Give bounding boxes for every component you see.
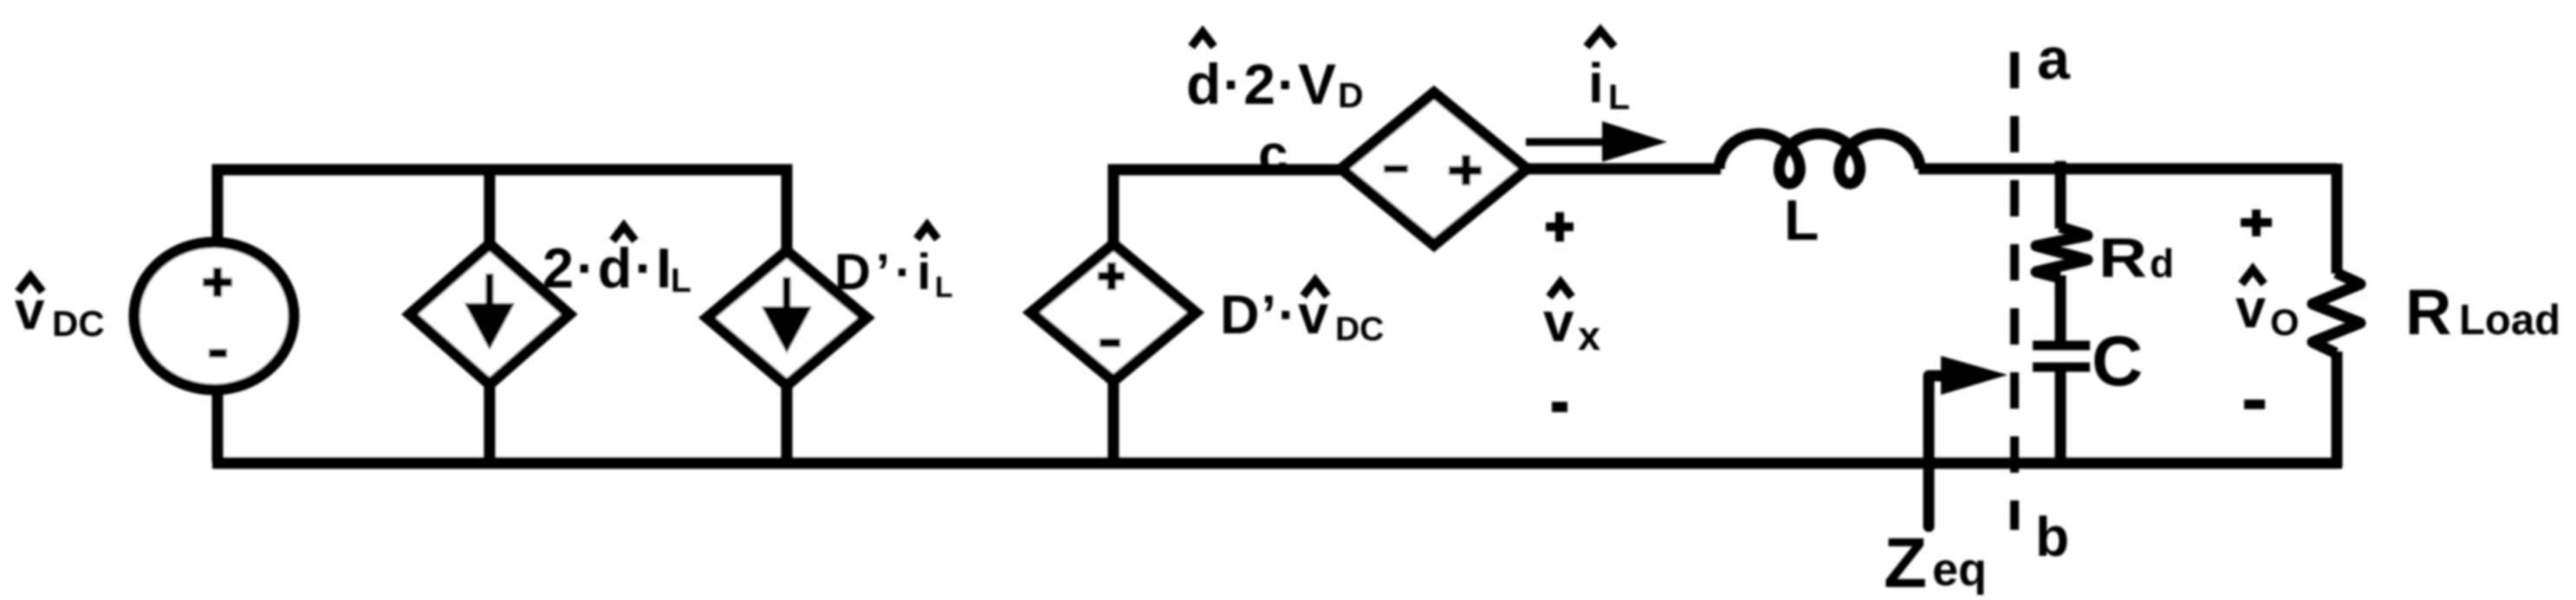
wire source circle bottom <box>212 386 224 462</box>
dependent voltage source d*2*V_D <box>1341 93 1527 245</box>
svg-text:v: v <box>1543 291 1574 353</box>
plus sign of source D'*v_DC <box>1098 262 1125 290</box>
svg-text:DC: DC <box>1335 311 1384 348</box>
wire inductor to right corner <box>1918 164 2337 175</box>
capacitor C <box>2033 341 2090 351</box>
svg-text:i: i <box>1588 52 1604 114</box>
svg-text:D: D <box>1338 75 1364 115</box>
plus sign of v_x <box>1546 212 1574 242</box>
svg-text:L: L <box>935 271 953 304</box>
svg-text:d·2·V: d·2·V <box>1186 52 1338 116</box>
dependent current source 2*d*I_L <box>410 244 569 384</box>
svg-text:x: x <box>1578 313 1600 358</box>
svg-text:R: R <box>2405 276 2451 348</box>
svg-text:R: R <box>2099 227 2147 289</box>
wire voltage source 3 bottom <box>1108 377 1119 462</box>
minus sign of source d*2*V_D <box>1384 165 1408 173</box>
arrow of current source 2*d*I_L <box>464 274 515 350</box>
independent voltage source v_DC <box>134 242 294 390</box>
svg-text:L: L <box>671 262 691 300</box>
svg-text:v: v <box>2235 279 2266 339</box>
dashed cut line between node a and node b <box>2010 52 2019 530</box>
wire Rd to capacitor <box>2055 275 2067 343</box>
minus sign of source v_DC <box>209 349 227 358</box>
wire top rail left section with corners <box>217 170 787 253</box>
resistor R_Load <box>2313 273 2360 353</box>
wire capacitor to bottom rail <box>2055 369 2067 462</box>
wire drop to current source 1 <box>484 170 496 253</box>
wire current source 2 bottom <box>782 382 793 462</box>
minus sign of source D'*v_DC <box>1100 339 1120 347</box>
wire voltage source 3 top and rail to diamond 4 <box>1113 170 1345 248</box>
resistor R_d <box>2036 227 2087 278</box>
minus sign of v_x <box>1552 402 1567 412</box>
svg-text:L: L <box>1784 188 1819 252</box>
svg-text:D’·v: D’·v <box>1220 285 1330 345</box>
svg-text:C: C <box>2092 322 2143 401</box>
wire RLoad branch top <box>2332 164 2343 274</box>
svg-text:L: L <box>1608 77 1630 117</box>
arrow of current source D'*i_L <box>762 277 812 353</box>
svg-text:eq: eq <box>1932 544 1987 596</box>
plus sign of v_O <box>2241 210 2272 236</box>
svg-text:D’·i: D’·i <box>834 244 936 300</box>
dependent current source D'*i_L <box>707 251 866 385</box>
svg-text:Load: Load <box>2459 297 2560 344</box>
svg-text:O: O <box>2270 302 2299 344</box>
wire current source 1 bottom <box>484 381 496 462</box>
plus sign of source d*2*V_D <box>1449 155 1482 185</box>
svg-text:a: a <box>2037 26 2071 92</box>
svg-text:d: d <box>2150 241 2174 286</box>
plus sign of source v_DC <box>203 268 232 297</box>
svg-text:c: c <box>1258 125 1288 184</box>
wire RLoad branch bottom <box>2332 352 2343 468</box>
svg-text:DC: DC <box>52 303 105 344</box>
svg-text:b: b <box>2035 506 2069 568</box>
Z_eq pointer arrow <box>1929 376 1945 526</box>
svg-text:Z: Z <box>1884 524 1927 600</box>
dependent voltage source D'*v_DC <box>1031 244 1196 381</box>
wire diamond 4 to inductor <box>1523 164 1721 175</box>
wire Rd branch top <box>2055 161 2067 229</box>
minus sign of v_O <box>2244 400 2265 410</box>
current arrow i_L <box>1526 139 1612 146</box>
wire bottom rail <box>212 458 2342 469</box>
svg-text:2·d·I: 2·d·I <box>542 236 674 300</box>
inductor L <box>1719 134 1920 184</box>
